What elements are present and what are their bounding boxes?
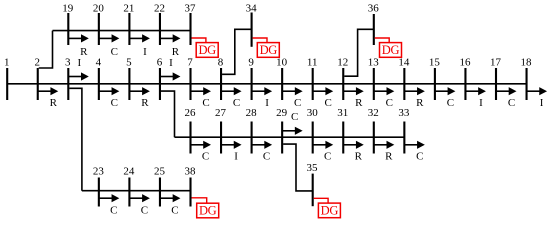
svg-text:C: C: [294, 97, 301, 109]
svg-text:25: 25: [154, 166, 166, 178]
DG unit at bus 34: [257, 43, 279, 58]
svg-text:4: 4: [96, 57, 102, 69]
load arrow R after bus 12: [344, 87, 364, 109]
load arrow C after bus 25: [161, 194, 181, 216]
svg-text:21: 21: [123, 3, 134, 15]
load arrow R after bus 5: [130, 87, 150, 109]
svg-text:22: 22: [154, 3, 165, 15]
load arrow C after bus 24: [130, 194, 150, 216]
bus 27: [215, 107, 227, 154]
load arrow C after bus 4: [99, 87, 119, 109]
bus 21: [123, 3, 134, 45]
svg-text:23: 23: [93, 166, 105, 178]
bus 2: [35, 57, 41, 100]
load arrow I above after bus 6: [161, 57, 181, 81]
branch line bus19-bus37: [53, 30, 191, 32]
svg-text:R: R: [80, 46, 88, 58]
load arrow C after bus 23: [99, 194, 119, 216]
svg-text:13: 13: [368, 57, 380, 69]
bus 5: [126, 57, 132, 100]
svg-text:C: C: [325, 97, 332, 109]
bus 10: [276, 57, 288, 100]
svg-text:DG: DG: [199, 204, 217, 218]
load arrow C after bus 15: [436, 87, 456, 109]
load arrow I after bus 27: [222, 141, 242, 163]
wire bus29 to bus35: [283, 144, 313, 191]
svg-text:C: C: [386, 97, 393, 109]
load arrow C after bus 33: [405, 141, 425, 163]
svg-text:16: 16: [459, 57, 471, 69]
svg-text:R: R: [416, 97, 424, 109]
svg-text:DG: DG: [260, 43, 278, 57]
svg-text:5: 5: [126, 57, 132, 69]
branch line bus23-bus38: [82, 190, 191, 192]
svg-text:C: C: [291, 111, 298, 123]
wire DG to bus 36: [375, 38, 389, 43]
svg-text:C: C: [111, 97, 118, 109]
bus 22: [154, 3, 165, 45]
svg-text:34: 34: [246, 3, 258, 15]
svg-text:C: C: [447, 97, 454, 109]
svg-text:R: R: [141, 97, 149, 109]
wire bus6 to branch 26-33: [161, 91, 175, 137]
load arrow C after bus 10: [283, 87, 303, 109]
DG unit at bus 36: [380, 43, 402, 58]
svg-text:17: 17: [490, 57, 502, 69]
bus 36: [368, 3, 380, 45]
bus 17: [490, 57, 502, 100]
DG unit at bus 35: [318, 203, 340, 218]
svg-text:R: R: [50, 97, 58, 109]
bus 16: [459, 57, 471, 100]
svg-text:C: C: [263, 151, 270, 163]
load arrow R after bus 32: [374, 141, 394, 163]
wire bus3 to branch 23-38: [69, 88, 82, 190]
load arrow C after bus 11: [313, 87, 333, 109]
bus 14: [398, 57, 410, 100]
bus 11: [307, 57, 318, 100]
svg-text:18: 18: [521, 57, 533, 69]
svg-text:I: I: [77, 57, 81, 69]
bus 33: [398, 107, 410, 154]
wire bus12 to bus36: [344, 29, 374, 76]
svg-text:C: C: [202, 151, 209, 163]
bus 18: [521, 57, 533, 100]
svg-text:C: C: [508, 97, 515, 109]
load arrow I above after bus 3: [69, 57, 89, 81]
svg-text:I: I: [479, 97, 483, 109]
branch line bus26-bus33: [175, 136, 405, 138]
load arrow R after bus 19: [69, 34, 89, 58]
svg-text:15: 15: [429, 57, 441, 69]
svg-text:11: 11: [307, 57, 318, 69]
load arrow C after bus 8: [222, 87, 242, 109]
svg-text:2: 2: [35, 57, 41, 69]
svg-text:R: R: [355, 97, 363, 109]
svg-text:35: 35: [307, 162, 319, 174]
bus 38: [185, 166, 197, 207]
svg-text:C: C: [324, 151, 331, 163]
svg-text:I: I: [540, 97, 544, 109]
bus 7: [187, 57, 193, 100]
svg-text:I: I: [234, 151, 238, 163]
svg-text:7: 7: [187, 57, 193, 69]
svg-text:R: R: [355, 151, 363, 163]
svg-text:27: 27: [215, 107, 227, 119]
svg-text:R: R: [385, 151, 393, 163]
svg-text:C: C: [110, 205, 117, 217]
svg-text:1: 1: [4, 57, 10, 69]
bus 15: [429, 57, 441, 100]
svg-text:33: 33: [398, 107, 410, 119]
bus 24: [123, 166, 135, 207]
svg-text:C: C: [416, 151, 423, 163]
load arrow C after bus 26: [191, 141, 211, 163]
svg-text:9: 9: [248, 57, 254, 69]
svg-text:C: C: [141, 205, 148, 217]
wire DG to bus 37: [192, 38, 206, 43]
bus 35: [307, 162, 319, 206]
DG unit at bus 37: [196, 43, 218, 58]
load arrow R after bus 22: [161, 34, 181, 58]
svg-text:C: C: [202, 97, 209, 109]
bus 31: [337, 107, 348, 154]
load arrow C after bus 13: [374, 87, 394, 109]
load arrow C after bus 30: [313, 141, 333, 163]
wire DG to bus 34: [253, 38, 267, 43]
svg-text:28: 28: [246, 107, 258, 119]
bus 12: [337, 57, 348, 100]
svg-text:14: 14: [398, 57, 410, 69]
bus 32: [368, 107, 379, 154]
svg-text:19: 19: [62, 3, 74, 15]
wire bus2 to upper branch: [39, 31, 53, 68]
svg-text:C: C: [233, 97, 240, 109]
svg-text:12: 12: [337, 57, 348, 69]
bus 9: [248, 57, 254, 100]
bus 28: [246, 107, 258, 154]
bus 29: [276, 107, 288, 154]
svg-text:C: C: [171, 205, 178, 217]
bus 4: [96, 57, 102, 100]
load arrow I after bus 18: [527, 87, 547, 109]
svg-text:DG: DG: [321, 204, 339, 218]
bus 20: [93, 3, 105, 45]
svg-text:20: 20: [93, 3, 105, 15]
wire DG to bus 35: [314, 198, 328, 203]
bus 19: [62, 3, 74, 45]
load arrow C after bus 28: [252, 141, 272, 163]
wire bus8 to bus34: [222, 29, 252, 74]
svg-text:I: I: [169, 57, 173, 69]
bus 6: [157, 57, 163, 100]
main feeder line bus1-bus18: [7, 83, 526, 85]
svg-text:DG: DG: [382, 43, 400, 57]
bus 37: [185, 3, 197, 45]
load arrow R after bus 14: [405, 87, 425, 109]
svg-text:C: C: [111, 46, 118, 58]
svg-text:24: 24: [123, 166, 135, 178]
wire DG to bus 38: [192, 198, 207, 203]
bus 13: [368, 57, 380, 100]
svg-text:36: 36: [368, 3, 380, 15]
load arrow C after bus 7: [191, 87, 211, 109]
svg-text:I: I: [265, 97, 269, 109]
bus 30: [307, 107, 319, 154]
bus 8: [218, 57, 224, 100]
svg-text:32: 32: [368, 107, 379, 119]
svg-text:31: 31: [337, 107, 348, 119]
bus 34: [246, 3, 258, 47]
load arrow R after bus 31: [344, 141, 364, 163]
svg-text:R: R: [172, 46, 180, 58]
svg-text:10: 10: [276, 57, 288, 69]
bus 1: [4, 57, 10, 100]
svg-text:38: 38: [185, 166, 197, 178]
load arrow C after bus 20: [99, 34, 119, 58]
load arrow R after bus 2: [38, 87, 58, 109]
svg-text:3: 3: [65, 57, 71, 69]
load arrow C after bus 17: [497, 87, 517, 109]
svg-text:6: 6: [157, 57, 163, 69]
svg-text:8: 8: [218, 57, 224, 69]
bus 25: [154, 166, 166, 207]
load arrow C above after bus 29: [283, 111, 303, 135]
bus 26: [185, 107, 197, 154]
load arrow I after bus 21: [130, 34, 150, 58]
DG unit at bus 38: [197, 203, 219, 218]
svg-text:DG: DG: [198, 43, 216, 57]
load arrow I after bus 9: [252, 87, 272, 109]
svg-text:I: I: [143, 46, 147, 58]
svg-text:29: 29: [276, 107, 288, 119]
svg-text:26: 26: [185, 107, 197, 119]
load arrow I after bus 16: [466, 87, 486, 109]
svg-text:30: 30: [307, 107, 319, 119]
bus 23: [93, 166, 105, 207]
svg-text:37: 37: [185, 3, 197, 15]
bus 3: [65, 57, 71, 100]
